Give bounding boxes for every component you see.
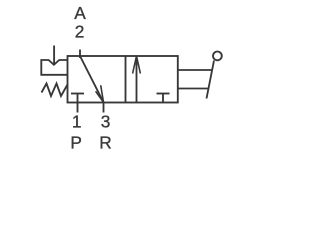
lever arm diagonal: [207, 61, 215, 99]
arrowhead wings of 1-2 flow path: [133, 56, 141, 74]
blocked port stub (right box): [162, 94, 164, 103]
port 2/A stub: [79, 50, 81, 59]
detent actuator arrow shaft: [53, 46, 55, 66]
blocked port 1 symbol (left box): [71, 93, 84, 95]
svg-text:R: R: [99, 133, 111, 153]
svg-text:A: A: [74, 3, 86, 23]
flow path arrow 2 to 3 (left box diagonal): [80, 56, 104, 102]
lever lower link: [178, 88, 209, 90]
detent notch box: [41, 60, 67, 75]
blocked port 3 symbol (right box): [157, 93, 170, 95]
svg-text:2: 2: [75, 21, 85, 41]
arrowhead wings of 2-3 flow path: [96, 85, 104, 102]
flow path arrow 1 to 2 (right box vertical): [136, 56, 138, 103]
lever upper link: [178, 69, 213, 71]
svg-text:P: P: [70, 133, 82, 153]
port 3 stub: [103, 103, 105, 113]
svg-text:1: 1: [72, 112, 82, 132]
lever knob circle: [213, 52, 222, 61]
svg-text:3: 3: [101, 112, 111, 132]
return spring: [42, 84, 68, 97]
position divider line: [125, 56, 127, 103]
valve body outline (two-position box): [68, 56, 178, 103]
port 1 stub: [77, 94, 79, 113]
